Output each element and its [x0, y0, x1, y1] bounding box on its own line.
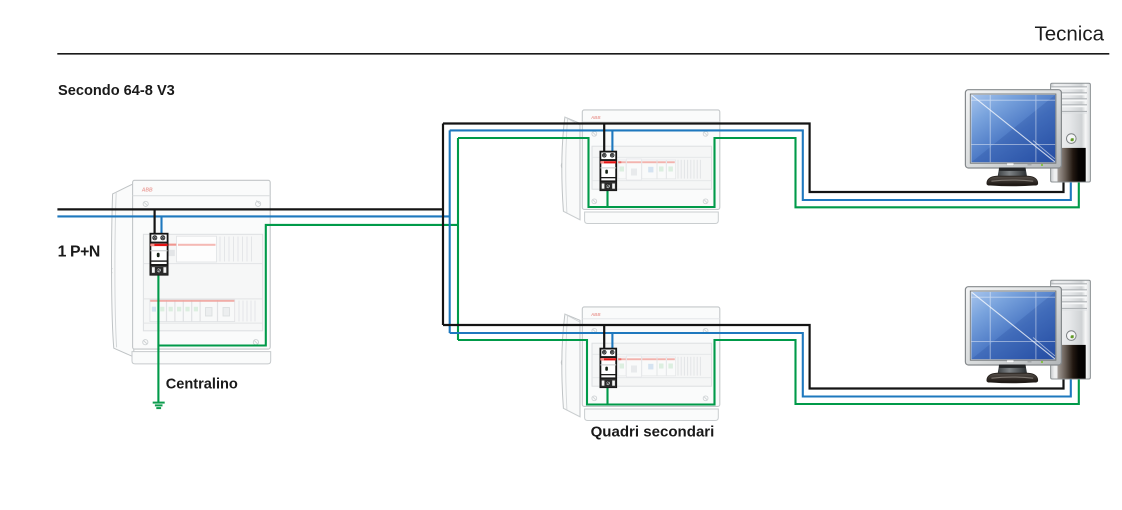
PC monitor: [965, 90, 1061, 168]
PC dark bay: [1058, 148, 1086, 182]
svg-text:ABB: ABB: [590, 115, 601, 120]
PC monitor bottom details: [1007, 163, 1015, 165]
neutral wire blue: quadro1 breaker drop: [611, 130, 613, 153]
neutral wire blue: top run to PC1: [450, 130, 1071, 200]
earth wire green: bottom run through quadro 2 to PC2: [458, 340, 1079, 405]
svg-text:Centralino: Centralino: [166, 377, 238, 393]
earth wire green: quadro1 breaker drop: [606, 189, 608, 207]
breaker DS201 centralino: [150, 234, 167, 275]
phase wire black: bottom run to PC2: [443, 325, 1064, 389]
centralino corner screws: [143, 201, 261, 345]
breaker DS201 quadro 1: [600, 152, 616, 191]
neutral wire blue: quadro2 breaker drop: [611, 333, 613, 350]
centralino row2 breakers (faded): [150, 300, 255, 322]
quadro header line: [582, 121, 720, 123]
phase wire black: centralino breaker drop: [154, 209, 156, 236]
svg-text:Secondo 64-8 V3: Secondo 64-8 V3: [58, 83, 175, 99]
svg-text:Tecnica: Tecnica: [1034, 23, 1104, 46]
centralino door: [112, 184, 134, 358]
centralino cabinet box: [133, 180, 271, 349]
phase wire black: top run to PC1: [443, 124, 1064, 193]
neutral wire blue: bottom run to PC2: [450, 333, 1071, 397]
quadro bottom skirt: [585, 212, 719, 224]
neutral wire blue: centralino breaker drop: [160, 216, 162, 236]
quadro corner screws: [592, 131, 708, 203]
phase wire black: riser: [442, 124, 444, 326]
svg-text:ABB: ABB: [141, 187, 153, 193]
earth wire green: centralino breaker to ground: [157, 274, 159, 402]
centralino inner recess: [143, 234, 262, 330]
centralino bottom skirt: [132, 352, 271, 364]
earth wire green: centralino branch to distribution tee: [158, 225, 458, 346]
earth wire green: riser: [457, 138, 459, 340]
svg-text:1 P+N: 1 P+N: [58, 244, 100, 261]
quadro secondario 2: [561, 307, 720, 421]
header rule: [57, 53, 1109, 55]
centralino header line: [133, 195, 271, 197]
ground symbol: [153, 403, 165, 409]
phase wire black: quadro2 breaker drop: [603, 325, 605, 350]
quadro door: [562, 117, 580, 220]
earth wire green: top run through quadro 1 to PC1: [458, 138, 1079, 207]
quadro cabinet box: [582, 110, 720, 209]
phase wire black: quadro1 breaker drop: [603, 124, 605, 154]
breaker DS201 quadro 2: [600, 349, 616, 388]
PC 2: [965, 280, 1090, 383]
earth wire green: quadro2 breaker drop: [606, 386, 608, 405]
neutral wire blue: riser: [449, 130, 451, 333]
centralino row1 modules (faded): [168, 236, 251, 262]
phase wire black: feed from left: [57, 208, 443, 210]
PC power button: [1067, 134, 1077, 144]
quadro row modules (faded): [618, 159, 700, 180]
PC stand: [998, 168, 1027, 178]
PC tower: [1051, 83, 1091, 182]
svg-text:Quadri secondari: Quadri secondari: [591, 424, 715, 441]
neutral wire blue: feed from left: [57, 215, 449, 217]
quadro inner recess: [592, 146, 712, 189]
